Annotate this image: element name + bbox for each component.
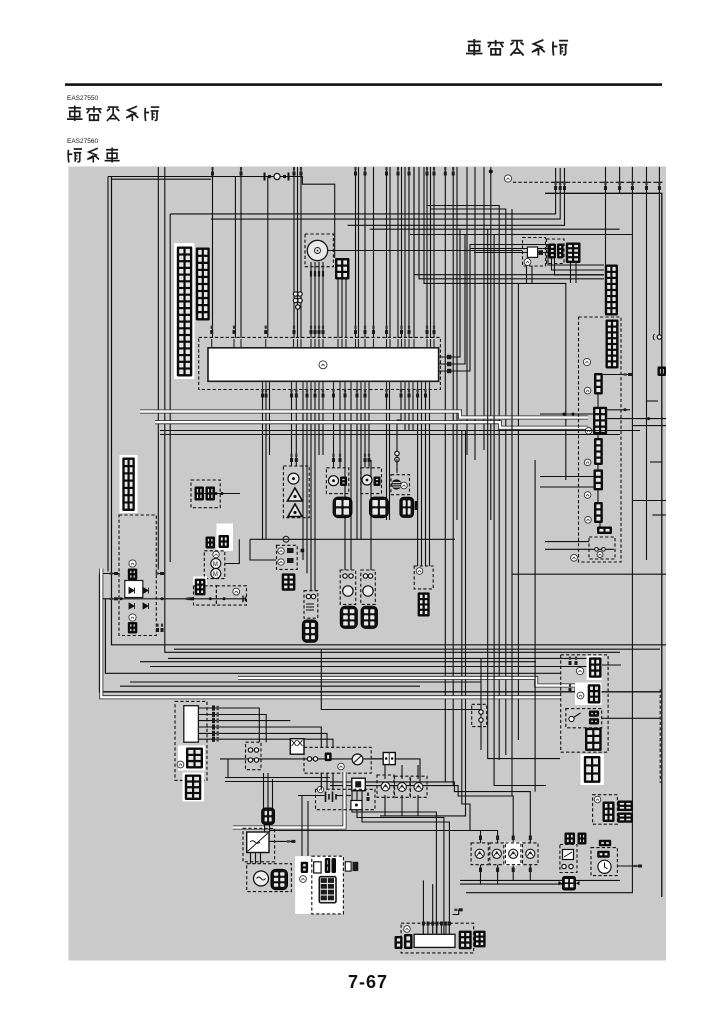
coil stack D joints	[363, 574, 372, 578]
wire c37 feed d	[429, 390, 431, 567]
clock dashed box	[591, 848, 617, 876]
wire ecu bot x386	[386, 390, 388, 521]
ECU box U1	[208, 348, 439, 382]
clock connector	[597, 851, 610, 858]
wire handlebar out2	[198, 715, 266, 743]
sensor S3 mate	[369, 497, 388, 518]
wire bus y686	[120, 685, 420, 687]
wire coilB feed b	[314, 390, 316, 591]
wire staircase bottom1	[330, 781, 445, 783]
wire right y425	[633, 425, 666, 427]
sensor S4 mate	[400, 497, 414, 517]
junction ring	[283, 536, 289, 542]
sensor S4 side ticks	[387, 501, 419, 510]
sensor S4	[392, 480, 401, 489]
flasher relay	[563, 850, 574, 860]
wire headlight conn1 in	[561, 657, 591, 659]
wire switch to fusepair	[371, 758, 383, 760]
ECU dashed border	[199, 337, 441, 389]
wire battery feed b	[267, 773, 269, 808]
main switch rotor	[352, 754, 363, 765]
wire meterlamp drop2	[401, 765, 403, 779]
wire handlebar out6	[198, 739, 333, 747]
wire ign left pair b	[225, 781, 330, 783]
bus junction dots	[120, 597, 212, 600]
coil stack A connector	[282, 573, 296, 590]
bus598 connector tick	[186, 597, 194, 600]
wire top-left horizontal	[108, 177, 335, 259]
white harness left L	[101, 569, 560, 698]
meter lamp 3	[414, 783, 423, 792]
ECU bottom pins	[262, 381, 430, 389]
main switch joints	[307, 757, 317, 761]
rear connector E	[594, 502, 603, 523]
sensor S2 mate	[333, 497, 352, 518]
turn signal bulb 3	[509, 849, 518, 858]
solenoid dashed box A	[194, 586, 217, 605]
ignition coil B	[302, 620, 318, 642]
wire coilD feed	[370, 460, 372, 570]
tail light right connector 2	[474, 931, 486, 948]
rear connector B	[593, 407, 607, 435]
wire tail feed1	[422, 880, 424, 934]
tail light label	[404, 926, 411, 933]
right strip label	[583, 358, 590, 365]
handlebar connector 2	[185, 775, 202, 801]
wire ecu top x409	[408, 167, 410, 338]
wire below bulb3	[512, 865, 514, 881]
tail light left connectors	[395, 934, 413, 949]
svg-text:M: M	[213, 562, 218, 568]
wire gen v3	[260, 853, 262, 864]
top connector label	[504, 175, 511, 182]
meter lamp 2	[398, 783, 407, 792]
wire bus y880	[460, 879, 620, 881]
white harness top	[140, 412, 588, 418]
wire diag down a	[570, 263, 572, 283]
wire junction line	[250, 538, 455, 540]
wire bus y658	[168, 657, 561, 659]
wire stub x555	[555, 168, 557, 182]
wire bus y661	[140, 661, 536, 663]
wire coilC feed b	[350, 390, 352, 571]
wire below bulb1	[480, 865, 482, 884]
wire ecu bot x323	[322, 390, 324, 456]
wire top x467	[466, 167, 468, 455]
wire right dashed connector row	[513, 181, 662, 183]
wire bulb1 feed	[460, 831, 481, 843]
wire gen v1	[250, 853, 252, 864]
relay R1	[527, 247, 543, 257]
wire ecu bot x319	[318, 390, 320, 456]
wire ecu top x241	[240, 167, 242, 338]
wire ecu top x398	[397, 167, 399, 338]
dimmer plugs	[589, 711, 599, 725]
wire bus y682	[130, 681, 481, 683]
ecu top wire labels	[210, 326, 435, 334]
sensor S1 head	[288, 473, 299, 484]
wire right stub y401	[647, 400, 659, 402]
wire left trunk C	[105, 599, 560, 674]
dimmer dashed box	[566, 709, 602, 728]
tail light pins	[422, 922, 451, 935]
wire ecu top x267	[267, 177, 269, 339]
rear B dot	[624, 408, 627, 411]
clutch switch joints box	[246, 742, 262, 770]
wire conn pin c	[345, 280, 347, 339]
wire rear B out2	[607, 418, 666, 420]
wire tail feed4	[357, 791, 444, 935]
rear connector C	[594, 438, 603, 465]
wire c37 feed a	[417, 390, 419, 567]
wire ecu top x301	[300, 167, 302, 338]
left connector strip	[122, 458, 135, 512]
wire ign left pair a	[225, 777, 330, 779]
ECU symbol	[319, 361, 327, 369]
rear brake connector	[603, 802, 615, 823]
white harness top2	[155, 422, 588, 428]
relay RL1 connector	[128, 569, 138, 581]
ignition coil D	[361, 606, 378, 628]
wire diag down b	[575, 263, 577, 283]
wire ecu bot x269	[269, 390, 271, 456]
white harness ignition	[233, 772, 345, 828]
wire step x414	[414, 167, 604, 275]
meter lamp 1	[381, 782, 390, 791]
wire right y515	[652, 514, 666, 516]
solenoid label	[233, 588, 240, 595]
wire battery right	[336, 795, 351, 797]
wire ecu top x427	[427, 167, 499, 760]
sidestand dashed box	[472, 704, 487, 726]
wire relay down b	[531, 266, 533, 283]
wire brake in1	[545, 541, 589, 543]
flasher dashed box	[560, 845, 577, 873]
wire ecu bot x307	[306, 390, 308, 574]
wire right bus y574	[512, 573, 666, 575]
wire bus y234	[410, 234, 632, 236]
connector strip 1 (meter)	[177, 247, 193, 377]
wire handlebar out1	[198, 708, 259, 742]
fuse panel dashed box	[312, 856, 344, 914]
generator dashed box	[247, 864, 292, 892]
dashed row wire labels	[554, 182, 661, 190]
wire ecu top x355	[355, 167, 357, 338]
fid unit	[195, 579, 206, 596]
rear small pair	[597, 527, 612, 535]
wire rcol x535	[534, 460, 536, 792]
clock	[598, 860, 611, 873]
fuse F4	[325, 858, 336, 873]
wire rcol x487	[488, 229, 560, 758]
coil stack C head	[343, 586, 353, 596]
wire motor pin 4	[322, 262, 324, 338]
accessory dots	[215, 492, 224, 495]
brake switch	[589, 548, 614, 552]
battery BT1	[326, 792, 337, 803]
relay R1 dashed box	[523, 238, 546, 267]
relay RL2 connector	[128, 622, 138, 634]
wire sensor1 feed a	[291, 390, 293, 467]
wire accessory	[204, 493, 240, 495]
wire tail feed5	[362, 791, 449, 935]
fuse grid	[319, 877, 336, 903]
tail light right connector 1	[459, 931, 472, 950]
svg-text:EAS27550: EAS27550	[67, 95, 98, 102]
wire rcol x510	[511, 209, 513, 796]
coil stack C joints	[343, 574, 353, 578]
headlight connector 1	[589, 657, 602, 677]
svg-text:EAS27560: EAS27560	[67, 138, 98, 145]
dashed row crossticks	[553, 181, 663, 183]
wire fan corner	[225, 539, 240, 563]
wire bus y666	[150, 666, 592, 668]
wire stub x560	[559, 168, 561, 182]
wire handlebar out3	[198, 720, 290, 722]
wire bus y598	[103, 598, 245, 600]
brake switch dashed box	[589, 537, 615, 559]
wire rear B out	[607, 409, 630, 411]
wire ecu top x297	[297, 167, 299, 338]
relay box right pin	[156, 572, 164, 575]
wire meterlamp down2	[401, 795, 403, 816]
coil stack D dashed	[361, 570, 376, 604]
wire headlight sw out	[602, 717, 660, 719]
wire loop left down	[517, 283, 519, 740]
right strip 1	[605, 265, 618, 316]
turn signal box 4	[523, 843, 539, 865]
battery ticks	[367, 793, 370, 801]
wire top x490 long	[490, 167, 492, 520]
rear conn B label	[585, 428, 592, 435]
wire gen v2	[255, 853, 257, 864]
wire left trunk A	[100, 574, 663, 692]
wire mainfuse down b	[269, 825, 271, 832]
fan motor M2	[211, 559, 221, 569]
tail light unit	[414, 934, 455, 947]
cutoff dashed box	[277, 545, 298, 569]
dimmer switch	[569, 713, 581, 722]
accessory connectors	[195, 487, 216, 501]
wire ecu top x390	[389, 167, 391, 338]
wire ecu bot x357	[356, 390, 358, 540]
wire ecu top x430	[431, 167, 506, 755]
generator connector	[271, 869, 288, 889]
wire ecu top x365	[364, 167, 366, 338]
svg-text:M: M	[213, 572, 218, 578]
turn signal box 1	[471, 843, 488, 865]
fan connectors	[206, 535, 230, 549]
rectifier U2	[247, 832, 269, 853]
wire rear A out	[603, 374, 628, 376]
ecu bottom wire labels	[261, 389, 427, 397]
clutch switch joints	[248, 748, 258, 762]
section heading 車架泵系統	[67, 106, 159, 122]
svg-text:7-67: 7-67	[348, 972, 388, 992]
wire ecu top x235	[234, 177, 236, 339]
coil stack C dashed	[340, 570, 356, 604]
wire rear D in1	[540, 476, 594, 478]
wire ecu bot x262	[262, 390, 264, 540]
clock connector top	[599, 840, 611, 847]
fuse F3	[314, 862, 321, 873]
sensor S1 dashed box	[283, 466, 309, 518]
relay box left pin 2	[110, 597, 118, 600]
wire meterlamp down1	[384, 795, 386, 816]
relay box label A	[129, 560, 136, 567]
wire sensor3 feed b	[368, 390, 370, 468]
wire meterlamp drop1	[384, 765, 386, 779]
wire mid y434	[160, 434, 620, 436]
motor M1	[307, 240, 327, 260]
diode D1	[129, 588, 135, 594]
handlebar label	[177, 761, 184, 768]
wire stub x564	[564, 168, 566, 182]
section heading 電路圖	[68, 148, 120, 163]
tail light dashed box	[401, 923, 474, 953]
wire ecu pin feed x430	[430, 209, 432, 338]
solenoid dot	[223, 597, 226, 600]
header rule	[65, 83, 662, 86]
sensor S4 joints	[395, 451, 399, 461]
diagram background	[69, 167, 667, 961]
coil stack B dashed	[304, 591, 318, 619]
wire motor pin 1	[310, 262, 312, 338]
wire ecu pin feed x434	[433, 214, 435, 338]
right edge joint	[653, 334, 661, 340]
wire ecu right pin 2	[447, 235, 465, 365]
wire rcol x494	[494, 235, 546, 786]
wire right x605	[605, 167, 607, 265]
bus598 end arrow	[243, 596, 246, 603]
relay box left pin 1	[110, 572, 118, 575]
connector beside motor	[335, 258, 350, 280]
fuse F1	[264, 173, 290, 181]
wire top-left vertical x164	[165, 167, 620, 652]
wire bus y573 right	[156, 573, 165, 575]
wire ecu top x434	[433, 167, 435, 214]
wire top-left vertical x158	[157, 167, 159, 570]
wire bus y573	[103, 573, 120, 575]
wire rear stack links	[598, 395, 600, 527]
tail harness connector	[584, 756, 601, 783]
fuse panel white patch	[295, 856, 343, 914]
coil stack B joints	[306, 594, 316, 610]
clock out tick	[634, 865, 642, 868]
sidestand joints	[479, 710, 483, 722]
relay box dashed	[119, 515, 156, 636]
coil stack D head	[363, 586, 373, 596]
connector strip 2 (meter)	[196, 248, 210, 321]
wire motor pin 3	[318, 262, 320, 338]
tail stub tick	[454, 908, 462, 911]
wire ecu pin feed x427	[426, 206, 428, 339]
wire ecu top x401	[401, 167, 403, 338]
wire handlebar out5	[198, 733, 327, 747]
ignition coil C	[340, 606, 357, 628]
wire ecu top x405	[404, 167, 406, 338]
meter connector white patch	[174, 243, 195, 379]
wire ecu top x294	[293, 167, 295, 338]
wire battery feed a	[263, 773, 265, 808]
wire staircase bottom2	[330, 785, 453, 787]
wire ecu top x414	[413, 167, 415, 338]
main switch dashed box	[304, 747, 371, 773]
handlebar connector 1 patch	[178, 746, 205, 771]
battery dashed box	[316, 789, 376, 809]
handlebar switch body	[184, 706, 199, 743]
main switch label	[338, 763, 345, 770]
wire below bulb2	[497, 865, 499, 884]
relay mate dashed box	[547, 239, 565, 264]
wire mid y430	[160, 430, 640, 432]
sensor S4 dashed box	[391, 475, 410, 495]
fuse below box	[352, 778, 366, 791]
relay mate connectors	[549, 244, 564, 259]
fuse F5	[345, 862, 358, 871]
relay box bottom pins	[156, 624, 164, 632]
wire bus y213	[171, 182, 556, 214]
purge valve connector	[418, 592, 430, 616]
sensor wire labels	[290, 454, 371, 462]
wire fuse panel feed	[301, 796, 303, 857]
wire ecu top x386	[386, 167, 388, 338]
wire coilB feed a	[310, 390, 312, 591]
wire junction drop	[250, 539, 276, 560]
wire ignition line	[220, 758, 383, 760]
wire ecu bot x389	[389, 390, 391, 521]
handlebar wire labels	[212, 705, 219, 741]
wire sensor2 feed a	[333, 390, 335, 468]
diode D3	[129, 603, 135, 609]
wire right x646	[646, 167, 648, 560]
wire mainfuse down	[264, 825, 266, 832]
meter lamp box 3	[411, 776, 428, 797]
purge valve label	[416, 568, 423, 575]
turn signal bulb 2	[492, 849, 501, 858]
turn labels	[479, 836, 532, 841]
wire rectifier out	[269, 840, 291, 842]
rear conn A label	[584, 387, 591, 394]
wire right edge stub y462	[650, 461, 662, 463]
main fuse connector	[262, 808, 275, 825]
wire switch drop c	[332, 773, 334, 789]
wire headlight conn1 out	[602, 664, 621, 666]
solenoid dashed box B	[216, 586, 246, 605]
rear conn E label	[585, 517, 592, 524]
relay R1 label	[524, 259, 531, 266]
wire bus y649	[174, 648, 660, 650]
tail harness conn patch	[581, 754, 605, 785]
wire tail stub	[452, 910, 458, 915]
fan conn white patch	[217, 524, 234, 552]
wire meterlamp down3	[417, 795, 419, 816]
relay RL1 body	[125, 581, 143, 598]
wire long mid x465	[380, 430, 466, 816]
diagnostic connector	[566, 243, 581, 264]
headlight stub ticks	[569, 657, 578, 692]
wire left trunk D	[107, 177, 109, 572]
flasher top connector B	[578, 833, 587, 845]
wire ecu right pin 1	[447, 230, 460, 358]
fan label	[213, 551, 219, 557]
sensor S1 triangle 2	[288, 504, 302, 517]
wire ign drop a	[227, 759, 229, 778]
flasher top connector A	[565, 833, 576, 845]
wire top x484	[483, 167, 485, 450]
wire left vertical x170	[169, 214, 171, 562]
wire long mid x445	[445, 167, 530, 843]
